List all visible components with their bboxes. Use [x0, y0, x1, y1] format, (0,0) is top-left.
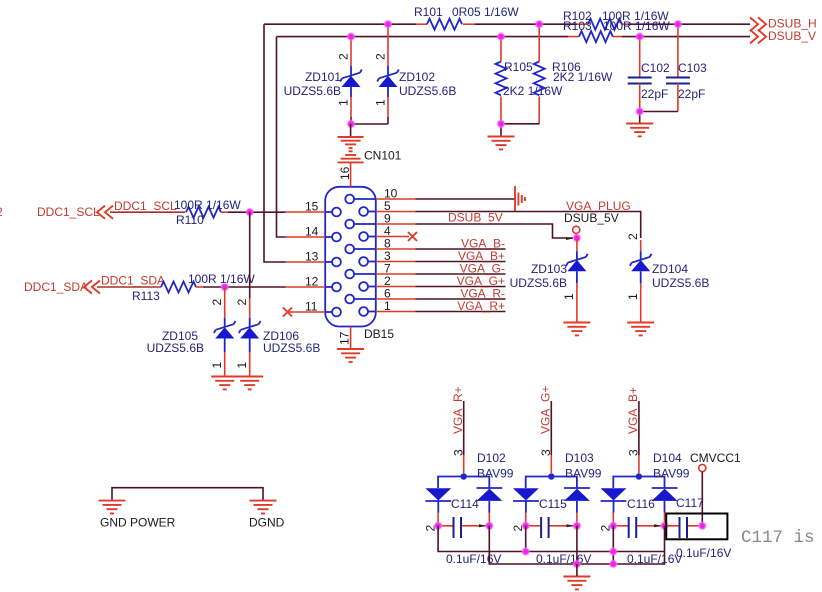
svg-text:R113: R113: [132, 289, 160, 303]
shield symbol above CN101: [338, 137, 364, 162]
resistor R103: [563, 19, 670, 42]
svg-text:BAV99: BAV99: [477, 467, 514, 481]
junction C102 top: [636, 33, 643, 40]
svg-text:DSUB_V: DSUB_V: [768, 29, 816, 43]
capacitor C117: [665, 496, 732, 560]
junction ZD102 top: [385, 21, 392, 28]
pin 9 wire to DSUB_5V: [354, 223, 376, 225]
dual diode D104 BAV99: [601, 451, 690, 526]
junction line B / D104 left: [610, 561, 617, 568]
resistor R102: [563, 9, 669, 30]
pin 16 red pin into connector: [350, 162, 352, 186]
wire vertical to pin 13: [264, 24, 286, 262]
dual diode D103 BAV99: [513, 451, 602, 526]
capacitor C115: [511, 497, 591, 566]
svg-text:22pF: 22pF: [641, 87, 668, 101]
resistor R110: [174, 198, 241, 227]
wire D103 left stem down: [525, 526, 527, 552]
pin 14 red pin segment: [286, 236, 326, 238]
pin 15 red pin segment: [286, 211, 326, 213]
zener diode ZD103: [510, 239, 588, 322]
wire DSUB_V lower rail: [277, 36, 751, 38]
ground below C102/C103: [626, 124, 653, 137]
svg-text:R110: R110: [176, 213, 204, 227]
junction D104 left / C116: [610, 522, 617, 529]
svg-text:0.1uF/16V: 0.1uF/16V: [676, 546, 731, 560]
off-page arrow DSUB_V: [750, 30, 766, 44]
svg-text:VGA_R+: VGA_R+: [457, 299, 505, 313]
svg-text:VGA B+: VGA B+: [626, 387, 640, 434]
off-page arrow DDC1_SDA: [84, 280, 100, 293]
off-page arrow DDC1_SCL: [97, 206, 113, 219]
wire ZD106 cathode drop: [249, 212, 251, 298]
svg-text:1: 1: [374, 99, 388, 106]
wire R105/R106 bottoms joined: [501, 124, 539, 136]
junction line A / D103 left: [522, 548, 529, 555]
svg-text:UDZS5.6B: UDZS5.6B: [652, 276, 709, 290]
svg-text:15: 15: [305, 200, 319, 214]
wire line B (right stems common): [489, 526, 664, 564]
svg-text:1: 1: [626, 293, 640, 300]
junction D103 left / C115: [522, 522, 529, 529]
wire DSUB_H top rail: [264, 23, 750, 25]
svg-text:GND POWER: GND POWER: [100, 516, 176, 530]
pin 11 wire with no-connect X: [288, 311, 326, 313]
wire C102/C103 bottoms joined: [640, 112, 678, 124]
svg-text:0R05 1/16W: 0R05 1/16W: [452, 5, 519, 19]
ground below R105/R106: [488, 137, 515, 150]
svg-text:3: 3: [627, 449, 641, 456]
junction line B / D103 right: [574, 561, 581, 568]
resistor R113: [132, 272, 255, 303]
capacitor C102: [628, 37, 670, 111]
pin 12 red pin segment: [286, 286, 326, 288]
svg-text:2K2 1/16W: 2K2 1/16W: [503, 84, 563, 98]
wire ZD101/ZD102 bottoms joined: [351, 123, 388, 125]
svg-text:DGND: DGND: [249, 516, 285, 530]
power symbol DSUB_5V: [564, 211, 619, 238]
svg-text:R105: R105: [504, 60, 533, 74]
svg-text:17: 17: [338, 331, 352, 345]
svg-text:DDC1_SCL: DDC1_SCL: [37, 205, 100, 219]
resistor R101: [414, 5, 519, 30]
connector shell pin 16 wire: [350, 124, 352, 137]
DB15 right column pin circles (5,4,3,2,1): [359, 207, 368, 316]
capacitor C114: [424, 497, 502, 566]
junction R105 bottom: [498, 120, 505, 127]
svg-text:UDZS5.6B: UDZS5.6B: [510, 276, 567, 290]
pin 2 wire VGA_G+: [368, 286, 376, 288]
resistor R106: [534, 24, 613, 124]
svg-text:C115: C115: [539, 497, 567, 511]
junction ZD101 top: [348, 33, 355, 40]
wire DDC1_SDA to R113: [97, 286, 161, 288]
pin 4 wire with no-connect X: [368, 236, 376, 238]
pin 8 wire VGA_B-: [354, 248, 376, 250]
junction R106 top: [536, 21, 543, 28]
wire D104 left stem down: [612, 526, 614, 564]
svg-text:11: 11: [305, 300, 318, 314]
svg-text:C103: C103: [678, 61, 707, 75]
wire line B to ground: [576, 564, 578, 576]
pin 1 rotated marker at elbow: [566, 237, 573, 240]
svg-text:1: 1: [384, 299, 391, 313]
ground below ZD106: [236, 377, 263, 390]
svg-text:C116: C116: [627, 497, 655, 511]
svg-text:D102: D102: [477, 451, 506, 465]
wire R110 to pin 15: [228, 211, 286, 213]
capacitor C103: [666, 24, 707, 111]
svg-text:2: 2: [374, 53, 388, 60]
svg-text:DDC1_SDA: DDC1_SDA: [24, 280, 88, 294]
svg-text:22pF: 22pF: [678, 87, 705, 101]
svg-text:DSUB_5V: DSUB_5V: [448, 211, 503, 225]
connector CN101 DB15 body: [325, 187, 376, 327]
pin 1 wire VGA_R+: [368, 311, 376, 313]
svg-text:UDZS5.6B: UDZS5.6B: [263, 341, 320, 355]
pin 6 wire VGA_R-: [354, 298, 376, 300]
power symbol CMVCC1: [690, 451, 741, 526]
junction line A / D104 left: [610, 548, 617, 555]
svg-text:R101: R101: [414, 5, 443, 19]
wire vertical to pin 14: [277, 37, 286, 237]
zener diode ZD105: [147, 288, 236, 376]
svg-text:2: 2: [337, 53, 351, 60]
svg-text:ZD104: ZD104: [652, 262, 688, 276]
pin 5 wire VGA_PLUG net: [368, 211, 376, 213]
pin 10 wire to power ground: [354, 198, 376, 200]
zener diode ZD106: [235, 298, 320, 376]
zener diode ZD101: [284, 37, 362, 124]
wire VGA R+ vertical: [463, 401, 465, 455]
svg-text:R103: R103: [563, 19, 592, 33]
pin 3 wire VGA_B+: [368, 261, 376, 263]
svg-text:1: 1: [562, 293, 576, 300]
zener diode ZD104: [626, 233, 709, 322]
DB15 middle column pin circles (10,9,8,7,6): [345, 195, 354, 304]
svg-text:C114: C114: [451, 497, 479, 511]
capacitor C116: [599, 497, 683, 566]
wire VGA G+ vertical: [550, 401, 552, 455]
ground below pin 17: [337, 349, 364, 362]
svg-text:ZD102: ZD102: [399, 70, 435, 84]
junction D104 right / C116: [661, 522, 668, 529]
svg-text:UDZS5.6B: UDZS5.6B: [399, 84, 456, 98]
svg-text:1: 1: [235, 362, 249, 369]
junction DSUB_5V / ZD103: [574, 235, 581, 242]
svg-text:1: 1: [210, 362, 224, 369]
wire DDC1_SCL to R110: [110, 211, 185, 213]
junction D103 right / C115: [574, 522, 581, 529]
wire GND POWER to DGND: [112, 488, 263, 500]
svg-text:D104: D104: [653, 451, 682, 465]
ground DGND: [250, 501, 277, 514]
wire D103 right stem down: [576, 526, 578, 564]
svg-text:1: 1: [337, 99, 351, 106]
svg-text:C117 is: C117 is: [741, 528, 815, 548]
svg-text:2: 2: [235, 299, 249, 306]
svg-text:ZD101: ZD101: [305, 70, 341, 84]
power ground (sideways) at pin 10: [515, 186, 525, 212]
svg-text:16: 16: [338, 166, 352, 180]
svg-text:DB15: DB15: [364, 327, 394, 341]
svg-text:BAV99: BAV99: [565, 467, 602, 481]
svg-text:2: 2: [0, 205, 3, 219]
svg-text:14: 14: [305, 225, 319, 239]
svg-text:12: 12: [305, 275, 319, 289]
svg-text:DDC1_SCL: DDC1_SCL: [114, 199, 177, 213]
svg-text:100R 1/16W: 100R 1/16W: [603, 19, 670, 33]
svg-text:DDC1_SDA: DDC1_SDA: [101, 274, 165, 288]
pin 17 red pin below connector: [350, 327, 352, 349]
pin 7 wire VGA_G-: [354, 273, 376, 275]
junction D102 left / C114: [435, 522, 442, 529]
svg-text:CMVCC1: CMVCC1: [690, 451, 741, 465]
junction C117 / CMVCC1: [699, 522, 706, 529]
svg-text:C102: C102: [641, 61, 670, 75]
ground GND POWER: [99, 501, 126, 514]
junction C103 top: [675, 21, 682, 28]
ground below ZD103: [563, 323, 590, 336]
junction ZD bottoms: [348, 121, 355, 128]
highlight rectangle around C117: [666, 514, 727, 540]
ground below ZD104: [627, 323, 654, 336]
wire line A (left stems common): [438, 526, 664, 552]
svg-text:3: 3: [452, 449, 466, 456]
svg-text:13: 13: [305, 250, 319, 264]
svg-text:UDZS5.6B: UDZS5.6B: [147, 341, 204, 355]
svg-text:DSUB_5V: DSUB_5V: [564, 211, 619, 225]
junction D102 right / C114: [486, 522, 493, 529]
junction DDC1_SCL / ZD106: [246, 209, 253, 216]
svg-text:CN101: CN101: [364, 149, 402, 163]
svg-text:2: 2: [626, 233, 640, 240]
svg-text:100R 1/16W: 100R 1/16W: [174, 198, 241, 212]
dual diode D102 BAV99: [425, 451, 513, 526]
zener diode ZD102: [374, 24, 457, 124]
junction DDC1_SDA / ZD105: [221, 284, 228, 291]
svg-text:3: 3: [539, 449, 553, 456]
ground below ZD105: [211, 377, 238, 390]
pin 13 red pin segment: [286, 261, 326, 263]
svg-text:2: 2: [210, 299, 224, 306]
svg-text:2K2 1/16W: 2K2 1/16W: [553, 70, 613, 84]
resistor R105: [496, 37, 564, 123]
svg-text:UDZS5.6B: UDZS5.6B: [284, 84, 341, 98]
svg-text:C117: C117: [676, 496, 704, 510]
svg-text:ZD103: ZD103: [531, 262, 567, 276]
ground below line B: [563, 577, 590, 590]
svg-text:VGA G+: VGA G+: [539, 386, 553, 434]
wire R113 to pin 12: [203, 286, 286, 288]
svg-text:VGA R+: VGA R+: [451, 386, 465, 434]
svg-text:D103: D103: [565, 451, 594, 465]
DB15 left column pin circles (15,14,13,12,11): [332, 208, 341, 317]
off-page arrow DSUB_H: [750, 17, 766, 31]
svg-text:BAV99: BAV99: [653, 467, 690, 481]
wire VGA B+ vertical: [638, 401, 640, 455]
junction R105 top: [498, 33, 505, 40]
junction C102 bottom: [636, 108, 643, 115]
